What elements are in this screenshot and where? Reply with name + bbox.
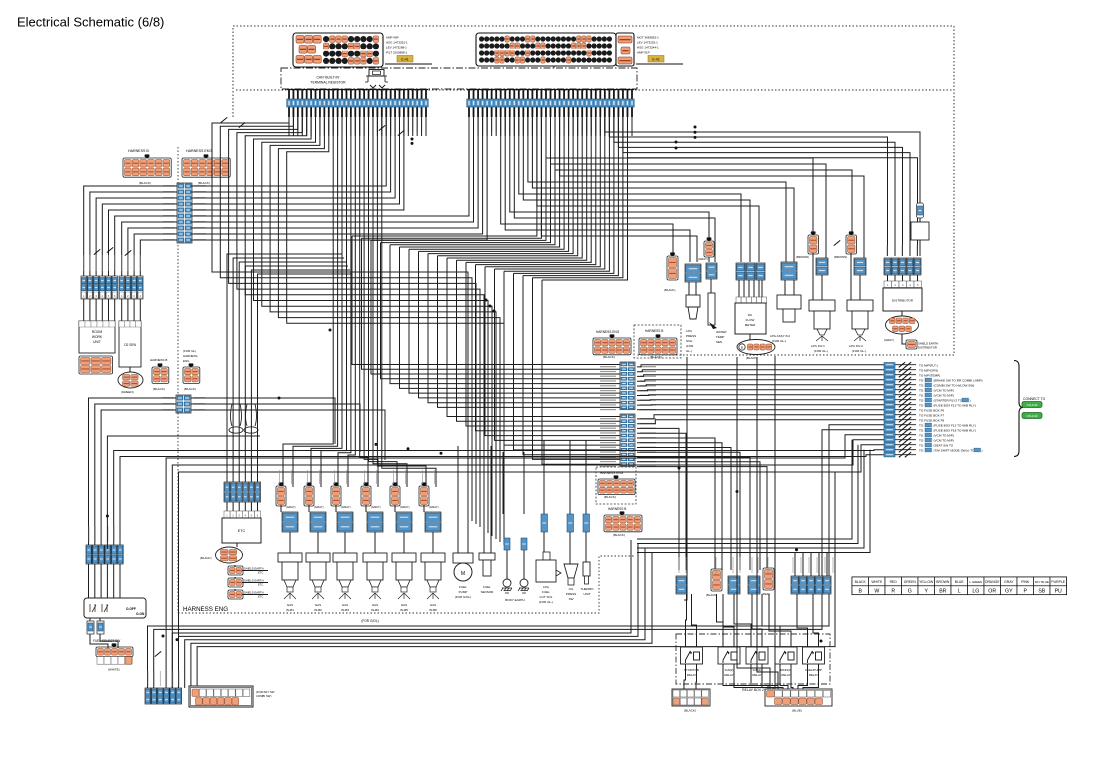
wire bottom bus to output list — [637, 440, 852, 539]
connector LPG PRESS SCH (BLACK) — [667, 252, 678, 280]
wire ECU down center to mesh — [466, 117, 591, 262]
connector THERMO UNIT cell — [583, 514, 590, 532]
wire break symbol — [899, 362, 905, 367]
svg-text:HSG 1473252-1: HSG 1473252-1 — [386, 41, 408, 45]
svg-text:BODY EARTH: BODY EARTH — [505, 598, 524, 602]
wire ECU to gas injector — [364, 117, 378, 487]
svg-text:TO: TO — [919, 448, 924, 452]
wire stack small to fuel select row — [95, 404, 176, 549]
svg-text:O2 SEN: O2 SEN — [124, 343, 137, 347]
svg-text:TO: TO — [919, 388, 924, 392]
wire ECU down center to mesh — [514, 117, 614, 273]
svg-text:TEMP: TEMP — [716, 335, 724, 339]
wire break symbol — [899, 412, 905, 417]
wire column to relay connector — [637, 448, 731, 571]
wire column to center mesh — [514, 273, 621, 450]
component LPG FUEL CUT SOL — [536, 552, 561, 582]
output list connector cells — [884, 363, 895, 457]
svg-text:(BLACK): (BLACK) — [613, 533, 625, 537]
wire ECU to distributor — [623, 117, 910, 256]
svg-text:ENG: ENG — [183, 359, 190, 363]
wire ECU down center to mesh — [485, 117, 600, 267]
component LPG INJ 1 body — [809, 300, 835, 341]
wire crossing symbol — [94, 249, 100, 254]
svg-text:P: P — [1023, 588, 1027, 594]
wire FLOW METER pin — [758, 280, 760, 297]
wire column to relay connector — [637, 433, 686, 570]
wire ECU to distributor cap — [605, 117, 920, 222]
wire GAS INJ#4 a — [365, 505, 367, 512]
wire ECU to engine component — [555, 117, 852, 237]
wire ECU down center to mesh — [381, 117, 551, 243]
svg-text:GAS: GAS — [342, 603, 348, 607]
component FUEL SENSOR — [479, 553, 495, 576]
wire break symbol — [899, 437, 905, 442]
wire ECU to engine component — [541, 117, 697, 262]
svg-text:TO: TO — [919, 403, 924, 407]
svg-text:GAS: GAS — [287, 603, 293, 607]
DISTRIBUTOR pin row — [884, 281, 922, 288]
wire output list to fuel select row — [114, 450, 884, 549]
svg-text:(BROWN): (BROWN) — [834, 255, 847, 259]
wire ETC pin — [226, 502, 228, 511]
wire break symbol 2 — [905, 407, 911, 412]
component GAS INJ#2 body — [306, 553, 330, 599]
wire column to output list — [637, 394, 884, 397]
wire crossing symbol — [379, 125, 385, 130]
wire harness stack to left device — [90, 192, 177, 276]
connector SHIELD EARTH ETC 2 — [228, 578, 243, 587]
wire ETC pin — [232, 502, 234, 511]
connector block E-41 (AMP 40P) — [293, 33, 432, 67]
connector block E-42 side cells — [616, 33, 634, 66]
connector LPG INJ 1 blue — [816, 258, 828, 275]
connector WATER TEMP (GRAY) — [704, 237, 714, 257]
wire column to center mesh — [447, 258, 620, 417]
wire harness stack to left device — [122, 222, 177, 276]
wire harness stack to ECU header — [191, 117, 400, 204]
wire output list row14 to bottom bus — [154, 430, 884, 688]
svg-text:UNIT: UNIT — [93, 340, 101, 344]
wire ETC pin — [238, 502, 240, 511]
wire ECU down center to mesh — [495, 117, 605, 269]
wire FUEL PUMP b — [467, 540, 469, 553]
RELAY BOX 2 dashed box — [676, 634, 830, 684]
wire junction — [694, 131, 697, 134]
connector fuel select blue row — [86, 545, 123, 564]
component FUEL SELECT SW box — [84, 598, 146, 618]
connector LPG INJ 2 (BROWN) — [846, 231, 857, 254]
central column connector group 1 — [620, 362, 635, 410]
wire connector to relay coil — [686, 594, 687, 647]
connector SHIELD EARTH ETC 3 — [228, 590, 243, 599]
connector relay blue 3 — [748, 576, 760, 594]
wire stack small to fuel select row — [89, 398, 177, 549]
svg-text:R: R — [891, 588, 895, 594]
component DISTRIBUTOR box — [883, 288, 922, 311]
wire junction — [795, 548, 798, 551]
wire fuel select row to switch — [113, 564, 115, 598]
wire relay to bottom connector — [684, 664, 686, 689]
connector BODY EARTH cell — [504, 538, 510, 550]
wire center vertical to component — [543, 440, 545, 514]
fuel select wire labels — [89, 526, 122, 542]
svg-text:HARNESS B: HARNESS B — [150, 358, 167, 362]
wire O2 SEN to oval connector — [129, 367, 131, 372]
wire break symbol — [899, 397, 905, 402]
wire ECU down center to mesh — [447, 117, 582, 258]
wire break symbol 2 — [905, 442, 911, 447]
wire center vertical to component — [467, 448, 469, 540]
component BODY EARTH symbol — [518, 579, 529, 593]
relay IGN(1) — [746, 647, 768, 664]
svg-text:(FUSE BOX F12 TO W/B RLY): (FUSE BOX F12 TO W/B RLY) — [934, 423, 976, 427]
wire break symbol — [899, 427, 905, 432]
wire output list to bottom row — [172, 440, 884, 688]
svg-text:ETC: ETC — [258, 571, 263, 575]
svg-text:B: B — [741, 346, 743, 350]
wire center vertical to component — [585, 440, 587, 514]
wire break symbol — [899, 377, 905, 382]
HARNESS ENG dashed box — [178, 556, 635, 613]
GAS INJ#1 wire labels — [279, 470, 280, 484]
svg-text:HARNESS B: HARNESS B — [645, 329, 663, 333]
wire junction — [440, 452, 443, 455]
ECU region dotted border — [233, 26, 954, 355]
svg-text:TO FUSE BOX F6: TO FUSE BOX F6 — [919, 408, 944, 412]
wire lower bus c — [185, 548, 645, 688]
wire ECU to engine component — [528, 117, 786, 262]
svg-text:(GRAY): (GRAY) — [286, 505, 296, 509]
wire ECU to distributor — [628, 117, 918, 256]
component GAS INJ#5 body — [392, 553, 416, 599]
wire ETC pin — [244, 502, 246, 511]
wire FUEL SENSOR b — [490, 540, 492, 553]
wire junction — [162, 635, 165, 638]
svg-text:(GRAY): (GRAY) — [400, 505, 410, 509]
wire junction — [176, 638, 179, 641]
connector bottom-left block — [189, 686, 253, 707]
wire column to center mesh — [495, 269, 621, 440]
wire column to output list — [637, 399, 884, 402]
connector GAS INJ#2 blue — [310, 512, 326, 532]
connector GAS INJ#4 (GRAY) — [361, 482, 371, 506]
svg-text:HARNESS ENG: HARNESS ENG — [600, 471, 624, 475]
svg-text:SENSOR: SENSOR — [481, 590, 495, 594]
svg-text:HARNESS EKG: HARNESS EKG — [186, 149, 212, 153]
wire break symbol 2 — [905, 422, 911, 427]
svg-text:(BLACK): (BLACK) — [603, 355, 615, 359]
wire ECU to gas injector — [311, 117, 342, 487]
wire ECU to gas injector — [373, 117, 407, 487]
component OIL PRESS SW — [564, 564, 578, 585]
svg-text:THERMO: THERMO — [581, 587, 595, 591]
wire crossing symbol — [221, 117, 227, 122]
connector GAS INJ#3 (GRAY) — [331, 482, 341, 506]
wire ECU down center to mesh — [400, 117, 560, 247]
wire break symbol 2 — [905, 387, 911, 392]
wire junction — [694, 136, 697, 139]
wire column to relay connector — [637, 452, 740, 570]
wire ECU to gas injector — [382, 117, 436, 487]
svg-text:B: B — [858, 588, 862, 594]
wire lower bus e — [197, 472, 835, 686]
connector SHIELD EARTH DISTRIBUTOR — [906, 340, 917, 349]
wire column to center mesh — [352, 236, 620, 365]
wire lower bus a — [172, 540, 631, 688]
svg-text:M: M — [461, 571, 465, 577]
relay ST.MOTOR — [681, 647, 703, 664]
svg-text:(GRAY): (GRAY) — [341, 505, 351, 509]
wire column to center mesh — [362, 238, 621, 369]
bottom-left wire labels — [148, 671, 180, 686]
wire harness stack to left device — [128, 228, 177, 276]
svg-text:CN-C43: CN-C43 — [1027, 414, 1038, 418]
GAS INJ#4 wire labels — [364, 470, 365, 484]
wire junction — [694, 126, 697, 129]
svg-text:(FOR GL-): (FOR GL-) — [852, 349, 866, 353]
svg-text:TO: TO — [919, 443, 924, 447]
wire ECU staircase bundle — [245, 117, 484, 530]
svg-text:DISTRIBUTOR: DISTRIBUTOR — [892, 299, 914, 303]
wire column to output list — [637, 404, 884, 406]
wire ECU to gas injector — [283, 117, 333, 487]
wire ECU to gas injector — [369, 117, 398, 487]
feed-through connector stack upper (harness B / EKG) — [163, 183, 206, 243]
svg-text:IGN(2): IGN(2) — [725, 668, 734, 672]
wire relay to bottom connector 2 — [695, 664, 698, 689]
connector ETC oval (BLACK) — [216, 547, 243, 563]
wire ETC feed — [251, 270, 350, 482]
svg-text:FLOW: FLOW — [746, 318, 755, 322]
svg-text:RELAY: RELAY — [781, 673, 790, 677]
svg-text:LPG INJ 2: LPG INJ 2 — [849, 344, 863, 348]
wire ECU staircase bundle — [220, 117, 472, 521]
wire ETC feed — [233, 258, 344, 482]
svg-text:(BLACK): (BLACK) — [198, 181, 210, 185]
wire column to center mesh — [466, 262, 620, 426]
connector WATER TEMP blue — [706, 263, 717, 279]
svg-text:ETC: ETC — [258, 595, 263, 599]
wire LPG INJ 2 2 — [850, 253, 852, 300]
wire LPG PRESS SCH — [688, 282, 690, 295]
wire FUEL SENSOR a — [483, 540, 485, 553]
wire pin to ROOM WORK UNIT — [101, 299, 103, 321]
connector pins O2 SEN — [119, 276, 143, 299]
wire crossing symbol — [239, 122, 245, 127]
wire center vertical to component — [490, 446, 492, 540]
svg-text:(GRAY): (GRAY) — [371, 505, 381, 509]
component FUEL PUMP — [453, 553, 473, 581]
connector HARNESS B mid — [639, 334, 677, 354]
wire pin to ROOM WORK UNIT — [95, 299, 97, 321]
svg-text:RED: RED — [890, 580, 898, 584]
wire column to relay connector — [637, 443, 722, 570]
GAS INJ#2 wire labels — [307, 470, 308, 484]
svg-text:INJ#6: INJ#6 — [429, 608, 437, 612]
connector HARNESS ENG low — [598, 475, 635, 494]
wire break symbol — [899, 407, 905, 412]
wire pin to O2 SEN — [127, 299, 129, 321]
central column connector group 2 — [620, 414, 635, 467]
wire break symbol 2 — [905, 417, 911, 422]
wire GAS INJ#5 b — [403, 532, 405, 553]
wire FLOW METER pin — [743, 280, 745, 297]
component LPG PRESS SCH body — [686, 295, 700, 319]
wire junction — [736, 490, 739, 493]
wire center vertical to component — [483, 444, 485, 540]
svg-text:DISTRIBUTOR: DISTRIBUTOR — [918, 346, 937, 350]
svg-text:BROWN: BROWN — [936, 580, 950, 584]
wire bus to relay row — [802, 552, 804, 576]
wire ECU to distributor — [609, 117, 887, 256]
ECU connector header E-42 pins — [467, 90, 634, 118]
svg-text:TO: TO — [919, 383, 924, 387]
svg-text:(BLACK): (BLACK) — [200, 556, 211, 560]
component GAS INJ#1 body — [278, 553, 302, 599]
svg-text:GAS: GAS — [430, 603, 436, 607]
wire bottom bus to output list — [637, 445, 858, 544]
svg-text:INJ#5: INJ#5 — [400, 608, 408, 612]
wire ETC to oval — [236, 543, 238, 547]
connector HARNESS B — [123, 154, 171, 177]
wire OIL PRESS SW — [569, 532, 571, 564]
wire column to relay connector — [637, 438, 715, 570]
wire junction — [106, 515, 109, 518]
svg-text:CUT SOL: CUT SOL — [540, 595, 553, 599]
wire junction — [675, 147, 678, 150]
svg-text:(FOR GL-): (FOR GL-) — [772, 339, 786, 343]
svg-text:ORANGE: ORANGE — [985, 580, 1000, 584]
wire ECU to engine component — [514, 117, 715, 262]
ECU connector header E-42 pins pin labels — [469, 119, 633, 132]
svg-text:BLUE: BLUE — [955, 580, 965, 584]
wire junction — [820, 640, 823, 643]
wire break symbol 2 — [905, 427, 911, 432]
wire shield earth etc — [242, 582, 268, 584]
svg-text:(VCM TO M/P): (VCM TO M/P) — [934, 393, 954, 397]
wire WATER TEMP SEN — [710, 279, 712, 293]
wire break symbol — [899, 402, 905, 407]
wire harness stack to ECU header — [191, 117, 487, 240]
wire relay down — [798, 664, 808, 689]
wire GAS INJ#3 b — [344, 532, 346, 553]
wire ECU to gas injector — [377, 117, 426, 487]
wire distributor shield — [902, 334, 907, 344]
wire harness stack to left device — [96, 198, 177, 276]
connector pins ROOM WORK UNIT — [81, 276, 117, 299]
wire ETC pin — [250, 502, 252, 511]
wire harness stack to ECU header — [191, 117, 395, 198]
svg-text:PRESS: PRESS — [566, 592, 576, 596]
wire FLOW METER pin — [761, 280, 763, 297]
wire break symbol — [899, 432, 905, 437]
svg-text:SKY BLUE: SKY BLUE — [1035, 580, 1049, 584]
connector OIL PRESS SW cell — [567, 514, 574, 532]
ECU header pin wire stubs — [289, 117, 632, 136]
wire center vertical to component — [502, 452, 504, 514]
wire junction — [375, 443, 378, 446]
svg-text:(GRAY): (GRAY) — [884, 338, 894, 342]
connector FOR GL HARNESS ENG — [183, 363, 200, 383]
svg-text:LPG: LPG — [686, 329, 693, 333]
distributor wire labels — [887, 245, 918, 256]
wire break symbol 2 — [905, 437, 911, 442]
wire column to center mesh — [371, 240, 620, 374]
wire junction — [493, 310, 496, 313]
wire relay down 2 — [762, 664, 783, 689]
wire LPG CUT SOL — [543, 532, 545, 552]
svg-text:(FOR GL-): (FOR GL-) — [814, 349, 828, 353]
svg-text:L.GREEN: L.GREEN — [969, 580, 982, 584]
wire bus to relay row — [826, 552, 828, 576]
wire column to center mesh — [476, 265, 621, 431]
wire ECU staircase bundle — [212, 117, 468, 518]
svg-text:GRAY: GRAY — [1004, 580, 1014, 584]
wire break symbol 2 — [905, 397, 911, 402]
connector GAS INJ#5 blue — [396, 512, 412, 532]
svg-text:LEV 1473252-1: LEV 1473252-1 — [637, 41, 658, 45]
svg-text:GAS: GAS — [315, 603, 321, 607]
wire harness stack to left device — [84, 186, 177, 276]
wire junction — [407, 447, 410, 450]
wire column to output list — [637, 385, 884, 386]
svg-text:ETC: ETC — [238, 529, 246, 533]
component LPG INJ 2 body — [847, 300, 873, 341]
svg-text:WATER: WATER — [716, 330, 727, 334]
wire junction — [278, 397, 281, 400]
box O2 SEN — [119, 321, 141, 367]
wire break symbol 2 — [905, 377, 911, 382]
wire ECU down center to mesh — [523, 117, 618, 276]
wire junction — [675, 141, 678, 144]
wire pin to ROOM WORK UNIT — [108, 299, 110, 321]
wire connector to relay coil — [717, 594, 724, 647]
wire ECU to engine component — [532, 117, 794, 262]
wire harness stack to left device — [140, 240, 177, 276]
wire LPG INJ 1 — [821, 275, 823, 300]
wire ECU down center to mesh — [504, 117, 609, 271]
wire pin to O2 SEN — [139, 299, 141, 321]
component GAS INJ#6 body — [421, 553, 445, 599]
wire connector to relay coil — [734, 594, 751, 647]
component WATER TEMP SEN body — [708, 293, 717, 329]
connector relay blue 2 — [728, 576, 740, 594]
wire break symbol 2 — [905, 432, 911, 437]
wire break symbol — [899, 372, 905, 377]
wire stack small to fuel select row — [101, 410, 176, 549]
wire column to center mesh — [504, 271, 620, 445]
wire ECU to distributor — [618, 117, 902, 256]
wire column to output list — [637, 375, 884, 377]
wire break symbol 2 — [905, 402, 911, 407]
wire relay down 2 — [803, 664, 819, 689]
wire crossing symbol — [398, 130, 404, 135]
wire ECU staircase bundle — [262, 117, 492, 536]
wire pin B to WHITE connector — [100, 634, 118, 648]
svg-text:(FOR G/GL): (FOR G/GL) — [361, 619, 378, 623]
wire break symbol — [899, 392, 905, 397]
svg-text:LPG INJ 1: LPG INJ 1 — [811, 344, 825, 348]
svg-text:INJ#2: INJ#2 — [314, 608, 322, 612]
ETC pin row — [224, 511, 261, 518]
svg-text:AMP 91P: AMP 91P — [637, 51, 650, 55]
svg-text:(STARTER RLY2 TO: (STARTER RLY2 TO — [934, 398, 963, 402]
wire connector to relay contact — [769, 594, 791, 647]
wire ECU to gas injector — [293, 117, 338, 487]
svg-text:L: L — [958, 588, 961, 594]
wire GAS INJ#2 a — [308, 505, 310, 512]
